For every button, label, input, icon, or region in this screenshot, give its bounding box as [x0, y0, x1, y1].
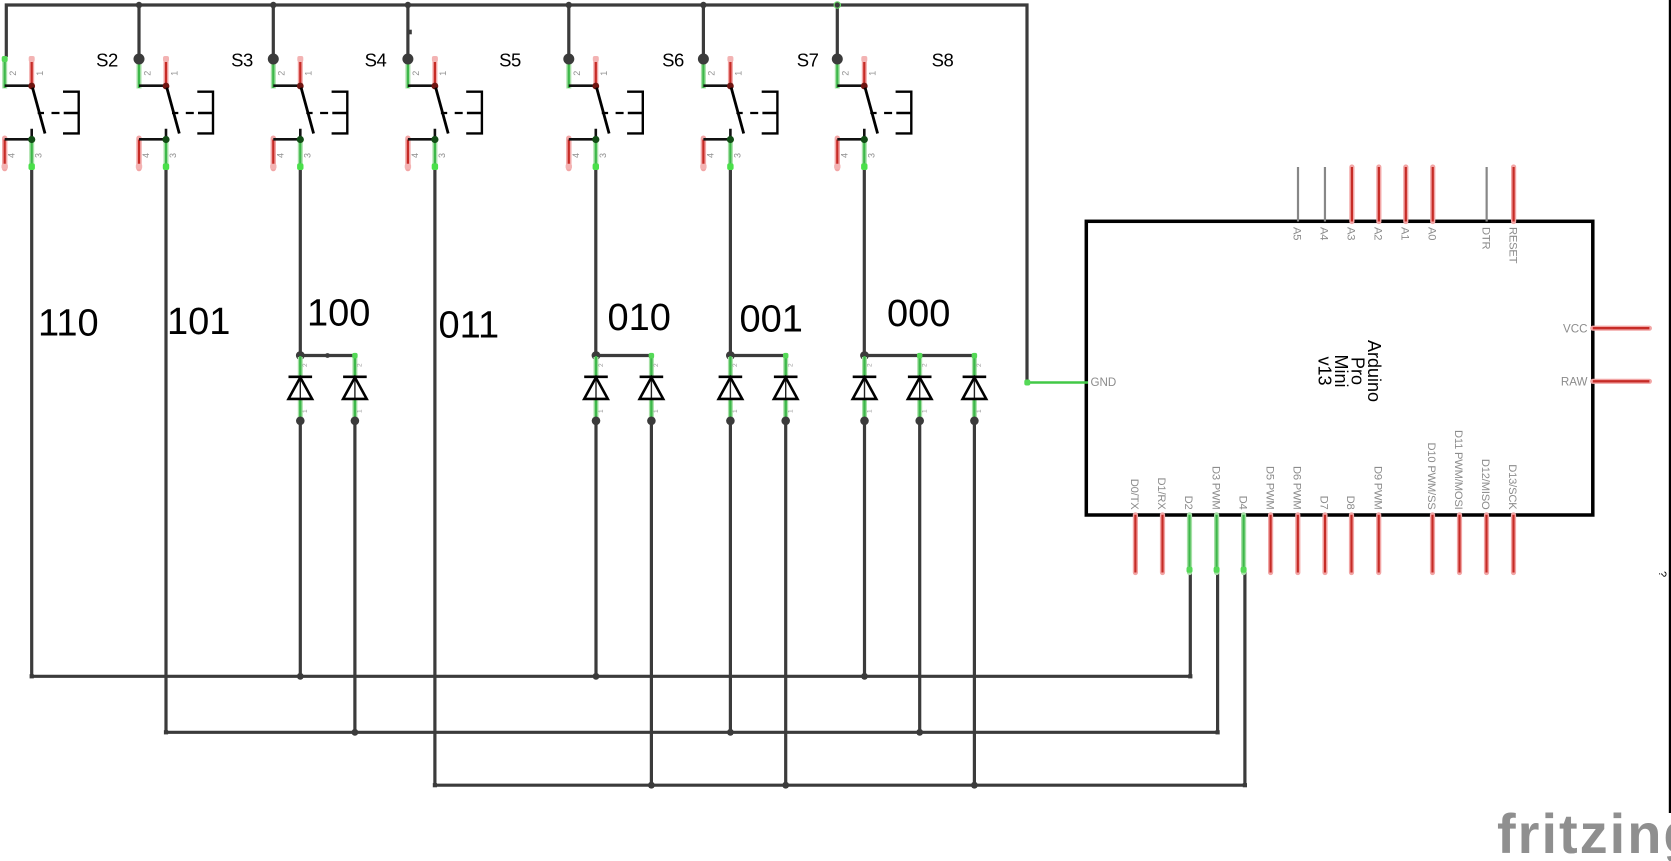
- svg-text:DTR: DTR: [1479, 227, 1491, 250]
- svg-text:A3: A3: [1345, 227, 1357, 240]
- svg-text:S2: S2: [96, 50, 118, 71]
- svg-text:A2: A2: [1372, 227, 1384, 240]
- svg-text:VCC: VCC: [1563, 322, 1587, 335]
- svg-text:S5: S5: [499, 50, 521, 71]
- svg-text:D3 PWM: D3 PWM: [1209, 466, 1221, 510]
- svg-text:S8: S8: [932, 50, 954, 71]
- svg-text:D2: D2: [1182, 496, 1194, 510]
- svg-text:A4: A4: [1318, 227, 1330, 240]
- svg-text:D0/TX: D0/TX: [1128, 479, 1140, 510]
- svg-text:RAW: RAW: [1561, 376, 1588, 389]
- svg-text:011: 011: [439, 305, 500, 347]
- svg-text:D7: D7: [1318, 496, 1330, 510]
- svg-text:fritzing: fritzing: [1497, 802, 1671, 861]
- svg-text:S6: S6: [662, 50, 684, 71]
- svg-text:110: 110: [38, 303, 99, 345]
- svg-text:D12/MISO: D12/MISO: [1479, 459, 1491, 510]
- svg-text:?: ?: [1656, 571, 1668, 577]
- svg-text:000: 000: [887, 293, 950, 335]
- svg-text:D13/SCK: D13/SCK: [1506, 464, 1518, 510]
- svg-text:A0: A0: [1425, 227, 1437, 240]
- svg-text:D4: D4: [1236, 496, 1248, 510]
- svg-text:101: 101: [167, 301, 230, 343]
- svg-text:100: 100: [307, 293, 370, 335]
- svg-text:D6 PWM: D6 PWM: [1291, 466, 1303, 510]
- svg-text:D1/RX: D1/RX: [1155, 478, 1167, 511]
- svg-text:S7: S7: [797, 50, 819, 71]
- svg-text:D9 PWM: D9 PWM: [1371, 466, 1383, 510]
- svg-text:D8: D8: [1344, 496, 1356, 510]
- svg-text:001: 001: [740, 299, 803, 341]
- svg-text:D5 PWM: D5 PWM: [1263, 466, 1275, 510]
- svg-text:D11 PWM/MOSI: D11 PWM/MOSI: [1452, 430, 1464, 510]
- svg-text:A1: A1: [1399, 227, 1411, 240]
- svg-text:010: 010: [608, 297, 671, 339]
- svg-text:RESET: RESET: [1506, 227, 1518, 264]
- svg-text:S4: S4: [365, 50, 387, 71]
- svg-text:D10 PWM/SS: D10 PWM/SS: [1425, 442, 1437, 509]
- svg-text:A5: A5: [1291, 227, 1303, 240]
- svg-text:GND: GND: [1091, 376, 1117, 389]
- svg-text:S3: S3: [231, 50, 253, 71]
